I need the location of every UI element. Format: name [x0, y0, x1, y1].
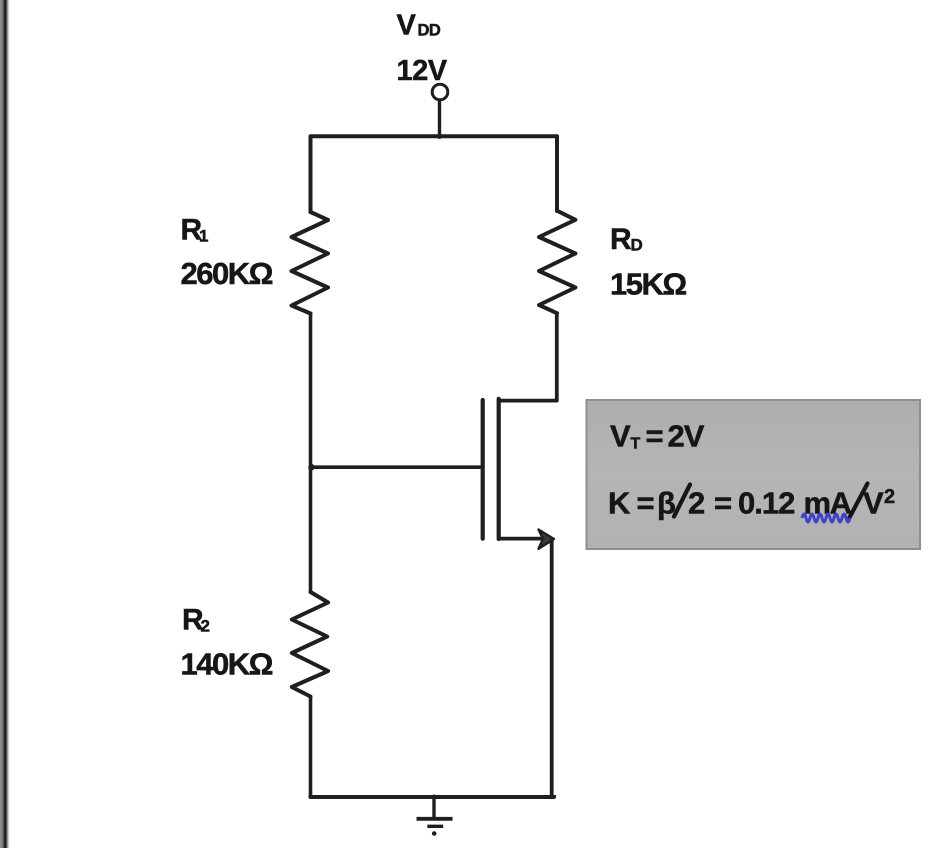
label R2: [182, 604, 210, 637]
svg-text:K: K: [608, 486, 631, 521]
value label 12V: [397, 55, 448, 87]
svg-text:140KΩ: 140KΩ: [181, 647, 273, 682]
svg-text:2: 2: [884, 486, 895, 508]
wire bottom rail: [311, 795, 555, 797]
svg-text:=: =: [714, 486, 732, 521]
svg-text:V: V: [397, 10, 417, 42]
svg-text:12V: 12V: [397, 55, 448, 87]
svg-text:2V: 2V: [668, 419, 705, 454]
wire R1 bottom to R2 top: [309, 314, 313, 593]
wire drain to RD: [499, 313, 557, 401]
annotation box: [587, 400, 921, 549]
svg-text:2: 2: [201, 617, 210, 636]
transistor Q1 source arrow: [539, 530, 555, 549]
wire VDD terminal to top rail: [438, 100, 441, 137]
svg-text:V: V: [610, 419, 631, 454]
svg-text:=: =: [637, 486, 655, 521]
value label 260KΩ: [181, 256, 273, 291]
note K = beta/2 = 0.12 mA/V2: [608, 484, 895, 521]
svg-text:0.12: 0.12: [738, 486, 794, 521]
junction gate node: [308, 464, 314, 470]
label R1: [181, 214, 209, 247]
terminal VDD: [432, 84, 448, 100]
value label 15KΩ: [610, 267, 686, 302]
svg-text:R: R: [610, 223, 632, 256]
svg-text:T: T: [631, 436, 641, 453]
note VT = 2V: [610, 419, 705, 454]
junction ground rail: [432, 795, 437, 800]
wire gate: [311, 465, 482, 469]
transistor Q1 gate bar: [481, 400, 485, 539]
svg-text:2: 2: [688, 486, 705, 521]
junction VDD rail: [437, 134, 442, 139]
wire top rail: [311, 136, 558, 212]
svg-text:V: V: [863, 486, 884, 521]
svg-text:260KΩ: 260KΩ: [181, 256, 273, 291]
svg-text:D: D: [631, 236, 643, 255]
resistor R1: [292, 212, 329, 314]
value label 140KΩ: [181, 647, 273, 682]
spellcheck squiggle under mA: [802, 514, 850, 522]
label RD: [610, 223, 643, 256]
resistor R2: [292, 592, 328, 697]
wire source: [499, 537, 542, 541]
svg-text:1: 1: [199, 227, 208, 246]
wire R2 bottom to bottom rail: [309, 697, 313, 798]
node VDD label: [397, 10, 441, 42]
resistor RD: [539, 211, 575, 314]
ground: [417, 797, 453, 836]
svg-text:15KΩ: 15KΩ: [610, 267, 686, 302]
transistor Q1 channel bar: [497, 399, 501, 539]
wire source down to bottom rail: [550, 539, 554, 797]
svg-text:=: =: [646, 419, 664, 454]
svg-text:DD: DD: [418, 22, 441, 40]
